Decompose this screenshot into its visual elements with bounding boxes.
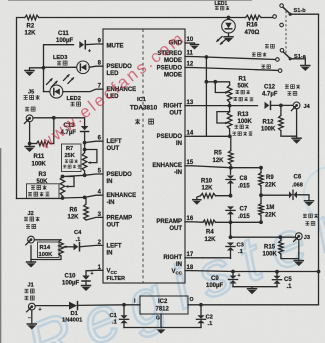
resistor R11 — [28, 122, 54, 168]
ground J5 — [25, 144, 34, 153]
resistor R16 — [245, 15, 273, 36]
capacitor C2 — [196, 303, 213, 328]
potentiometer R3 — [27, 172, 75, 198]
ground J3 — [294, 259, 303, 267]
potentiometer R7 — [62, 143, 97, 176]
resistor R5 — [213, 136, 234, 167]
wire pin14 — [192, 134, 232, 138]
LED LED1 — [215, 1, 236, 45]
ground pin10 — [191, 43, 199, 50]
capacitor C10 — [62, 270, 103, 291]
jack J4 output — [285, 84, 311, 110]
switch S1-a — [265, 44, 310, 72]
LED LED3 green — [44, 55, 104, 74]
potentiometer R13 — [217, 106, 253, 137]
resistor R15 — [263, 237, 299, 258]
wire pin12 to mono contact — [192, 65, 278, 71]
ground IC2 — [124, 328, 201, 334]
resistor R4 / wire pin16 — [192, 220, 263, 243]
wire mode node vertical — [205, 55, 209, 136]
wire pin5 — [63, 173, 104, 177]
resistor R9 — [259, 168, 277, 196]
jack J1 DC input — [25, 283, 42, 330]
capacitor C8 — [226, 168, 250, 196]
LED light arrows — [47, 74, 75, 87]
switch S1-b — [273, 4, 319, 27]
resistor R12 — [261, 105, 297, 136]
wire pin11 to stereo contact — [192, 52, 276, 59]
wire pin4 / rail join — [17, 195, 104, 200]
scan noise — [0, 0, 1, 1]
watermark blue registered — [17, 152, 325, 343]
wire J3 node — [231, 235, 296, 239]
capacitor C4 — [67, 230, 103, 251]
wire pin3 — [86, 217, 103, 220]
capacitor C7 — [226, 206, 250, 222]
capacitor C6 — [259, 175, 313, 207]
wire pin13 — [192, 104, 258, 108]
resistor R6 — [68, 197, 89, 220]
IC1 left pin labels — [107, 44, 137, 283]
wire C11 node — [44, 45, 74, 92]
wire top rail — [17, 18, 246, 199]
wire pin6 — [83, 141, 103, 145]
capacitor C12 — [262, 85, 293, 110]
resistor R8 1M — [259, 195, 277, 222]
wire pin18 supply — [192, 270, 320, 274]
wire pin15 — [192, 166, 263, 170]
regulator IC2 7812 — [124, 296, 319, 328]
jack J5 output — [24, 90, 40, 124]
jack J2 input — [24, 211, 40, 245]
LED LED2 yellow — [44, 85, 104, 106]
capacitor C3 — [226, 222, 245, 258]
wire pin17 — [192, 257, 231, 259]
jack J3 input — [294, 214, 318, 259]
capacitor C13 — [61, 123, 89, 143]
capacitor C9 — [206, 272, 241, 290]
IC IC1 TDA3810 — [103, 29, 185, 283]
ground J4 R12 — [292, 136, 301, 144]
resistor R10 — [193, 179, 233, 205]
capacitor C5 — [272, 272, 292, 290]
ground LED node — [25, 66, 45, 76]
IC1 right pin labels — [152, 41, 182, 276]
right supply rail — [318, 14, 320, 304]
scan edge artifacts — [0, 148, 1, 343]
potentiometer R14 — [31, 240, 67, 260]
potentiometer R1 — [205, 76, 254, 105]
ground C9 C5 — [233, 287, 277, 295]
resistor R2 — [25, 15, 39, 36]
switch gang dashed link — [285, 11, 287, 53]
IC1 pin stubs and numbers — [98, 37, 194, 271]
diode D1 1N4001 — [35, 302, 124, 324]
ground J2 — [27, 260, 36, 268]
capacitor C1 — [110, 303, 129, 328]
wire J5 node — [33, 116, 85, 144]
capacitor C11 — [56, 31, 103, 55]
